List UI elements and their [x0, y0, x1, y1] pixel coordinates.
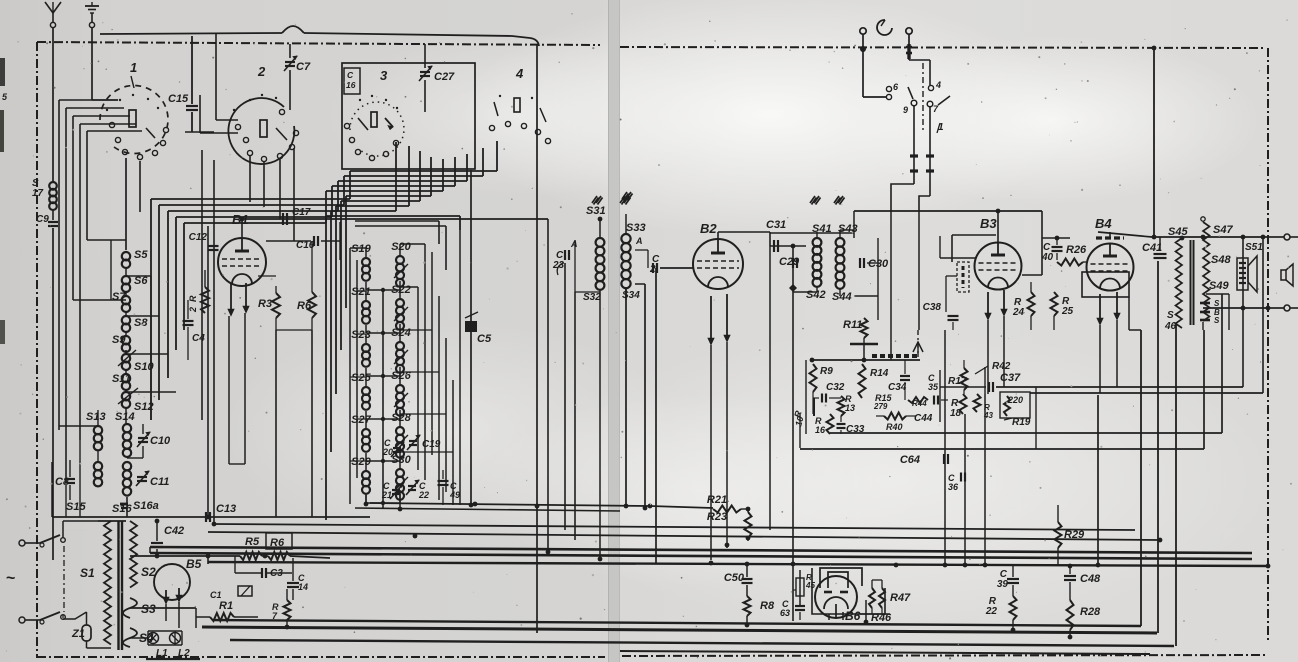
svg-text:C48: C48 [1080, 573, 1101, 585]
svg-text:24: 24 [1012, 307, 1025, 318]
svg-text:S: S [1214, 316, 1220, 325]
svg-text:S19: S19 [351, 243, 371, 255]
svg-text:C7: C7 [296, 61, 311, 73]
svg-text:C42: C42 [164, 525, 184, 537]
svg-text:C10: C10 [150, 435, 171, 447]
svg-text:22: 22 [418, 490, 429, 500]
svg-text:3: 3 [380, 68, 388, 83]
svg-text:45: 45 [805, 581, 815, 590]
svg-text:S: S [1167, 310, 1174, 321]
svg-text:14: 14 [298, 582, 308, 592]
svg-text:S6: S6 [134, 275, 148, 287]
svg-text:17: 17 [32, 188, 44, 199]
svg-text:B4: B4 [1095, 216, 1112, 231]
svg-text:R8: R8 [760, 600, 775, 612]
svg-text:A: A [570, 239, 578, 249]
svg-text:C13: C13 [216, 503, 236, 515]
svg-text:C1: C1 [210, 590, 222, 600]
svg-text:S32: S32 [583, 292, 601, 303]
svg-text:46: 46 [1164, 321, 1177, 332]
svg-text:R44: R44 [912, 399, 927, 408]
svg-text:6: 6 [893, 82, 899, 92]
svg-text:C41: C41 [1142, 242, 1162, 254]
svg-text:R: R [188, 295, 198, 302]
svg-text:R1: R1 [219, 600, 233, 612]
svg-text:S14: S14 [115, 411, 135, 423]
svg-text:C9: C9 [36, 214, 49, 225]
svg-text:C64: C64 [900, 454, 920, 466]
svg-text:C15: C15 [168, 93, 189, 105]
svg-text:4: 4 [515, 66, 524, 81]
svg-text:S34: S34 [622, 290, 640, 301]
svg-text:S16a: S16a [133, 500, 159, 512]
svg-text:R9: R9 [820, 366, 833, 377]
svg-text:S5: S5 [134, 249, 148, 261]
svg-text:B3: B3 [980, 216, 997, 231]
svg-text:16: 16 [815, 425, 826, 435]
svg-text:S7: S7 [112, 291, 126, 303]
svg-text:C4: C4 [192, 333, 205, 344]
svg-text:25: 25 [1061, 306, 1074, 317]
svg-text:S20: S20 [391, 241, 411, 253]
svg-text:S25: S25 [351, 372, 371, 384]
svg-text:L2: L2 [178, 648, 190, 659]
svg-text:4: 4 [935, 80, 941, 90]
svg-text:1: 1 [130, 60, 137, 75]
svg-text:S15: S15 [66, 501, 86, 513]
svg-text:S29: S29 [351, 456, 371, 468]
svg-text:S23: S23 [351, 329, 371, 341]
svg-text:S41: S41 [812, 223, 832, 235]
svg-text:S48: S48 [1211, 254, 1231, 266]
svg-text:S45: S45 [1168, 226, 1188, 238]
svg-text:C19: C19 [422, 439, 441, 450]
svg-text:S44: S44 [832, 291, 852, 303]
svg-text:40: 40 [1041, 252, 1054, 263]
svg-text:S27: S27 [351, 414, 371, 426]
svg-text:9: 9 [903, 105, 908, 115]
svg-text:R26: R26 [1066, 244, 1087, 256]
svg-text:C11: C11 [150, 476, 169, 488]
svg-text:C32: C32 [826, 382, 845, 393]
svg-text:R40: R40 [886, 422, 903, 432]
svg-text:B2: B2 [700, 221, 717, 236]
svg-text:S31: S31 [586, 205, 606, 217]
svg-text:~: ~ [6, 570, 15, 587]
svg-text:49: 49 [449, 490, 460, 500]
svg-text:2: 2 [188, 307, 198, 313]
svg-text:S11: S11 [112, 373, 131, 385]
svg-text:2: 2 [257, 64, 266, 79]
svg-text:S33: S33 [626, 222, 646, 234]
svg-text:63: 63 [780, 608, 790, 618]
svg-text:16: 16 [346, 80, 356, 90]
svg-text:L1: L1 [156, 648, 168, 659]
svg-text:C17: C17 [292, 207, 311, 218]
svg-text:S9: S9 [112, 334, 126, 346]
svg-text:S13: S13 [86, 411, 106, 423]
svg-text:C: C [347, 70, 354, 80]
svg-text:S47: S47 [1213, 224, 1233, 236]
svg-text:C5: C5 [477, 333, 492, 345]
svg-text:C34: C34 [888, 382, 907, 393]
svg-text:R42: R42 [992, 361, 1011, 372]
svg-text:R47: R47 [890, 592, 911, 604]
svg-text:S3: S3 [141, 602, 156, 616]
svg-text:279: 279 [873, 402, 888, 411]
svg-text:S1: S1 [80, 566, 95, 580]
svg-text:R3: R3 [258, 298, 272, 310]
svg-text:R23: R23 [707, 511, 727, 523]
svg-text:S21: S21 [351, 286, 371, 298]
svg-text:23: 23 [552, 260, 565, 271]
svg-text:35: 35 [928, 382, 939, 392]
svg-text:S51: S51 [1245, 242, 1263, 253]
svg-text:C37: C37 [1000, 372, 1021, 384]
svg-text:S49: S49 [1209, 280, 1229, 292]
svg-text:R28: R28 [1080, 606, 1101, 618]
svg-text:S30: S30 [391, 454, 411, 466]
svg-text:S8: S8 [134, 317, 148, 329]
svg-text:7: 7 [933, 104, 939, 114]
svg-text:5: 5 [2, 92, 8, 102]
svg-text:C31: C31 [766, 219, 786, 231]
svg-text:R19: R19 [1012, 417, 1031, 428]
svg-text:C44: C44 [914, 413, 933, 424]
svg-text:13: 13 [845, 403, 855, 413]
svg-text:R21: R21 [707, 494, 727, 506]
svg-text:S22: S22 [391, 284, 411, 296]
svg-text:39: 39 [997, 579, 1009, 590]
svg-text:R5: R5 [245, 536, 260, 548]
svg-text:C27: C27 [434, 71, 455, 83]
svg-text:C38: C38 [923, 302, 942, 313]
svg-text:B5: B5 [186, 557, 202, 571]
svg-text:C12: C12 [189, 232, 208, 243]
svg-text:36: 36 [948, 482, 959, 492]
svg-text:R14: R14 [870, 368, 889, 379]
svg-text:S: S [1214, 299, 1220, 308]
svg-text:S42: S42 [806, 289, 826, 301]
svg-text:A: A [635, 236, 643, 246]
svg-text:22: 22 [985, 606, 998, 617]
svg-text:S24: S24 [391, 327, 411, 339]
